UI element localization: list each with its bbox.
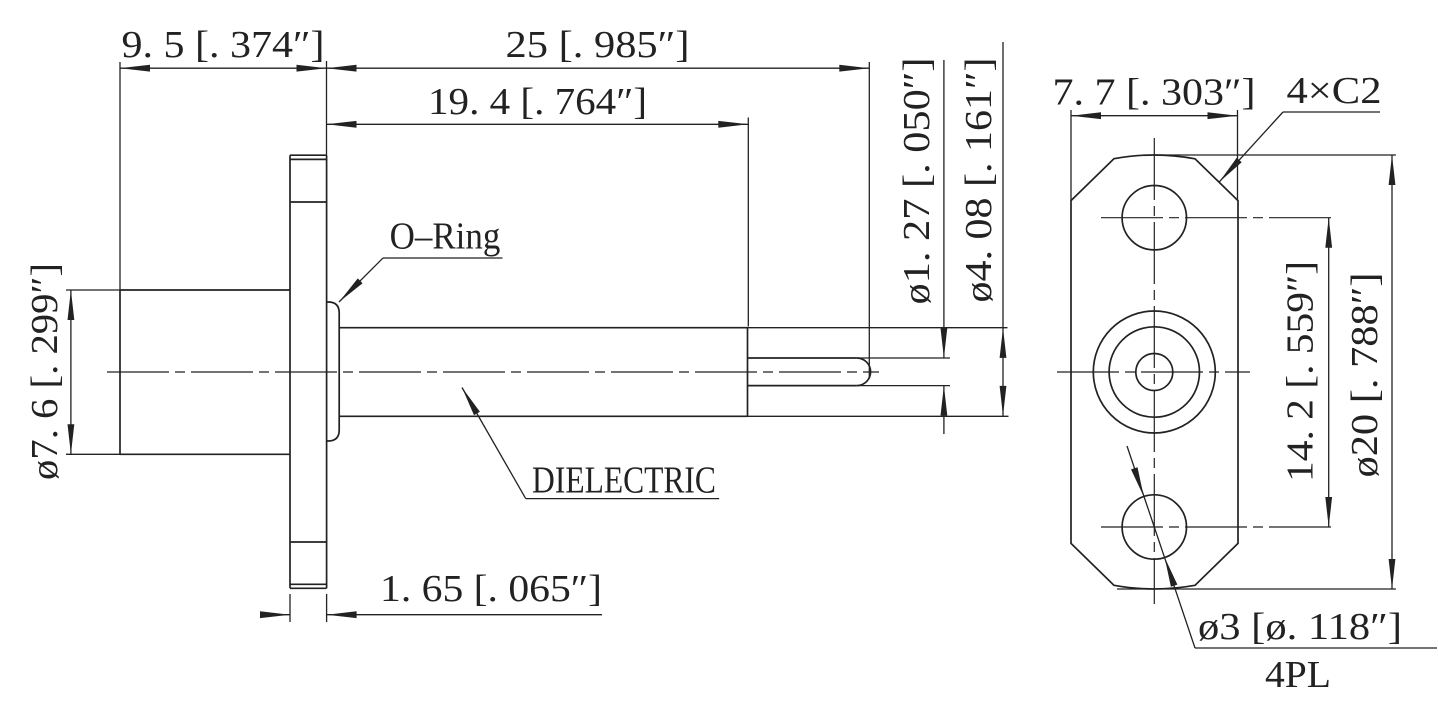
svg-text:1. 65 [. 065″]: 1. 65 [. 065″] [380, 568, 602, 610]
svg-text:14. 2 [. 559″]: 14. 2 [. 559″] [1280, 261, 1322, 482]
svg-text:ø4. 08 [. 161″]: ø4. 08 [. 161″] [958, 58, 1000, 303]
svg-text:ø20 [. 788″]: ø20 [. 788″] [1344, 273, 1386, 478]
svg-text:4×C2: 4×C2 [1287, 70, 1382, 112]
svg-text:19. 4 [. 764″]: 19. 4 [. 764″] [428, 81, 647, 123]
svg-text:DIELECTRIC: DIELECTRIC [532, 459, 716, 501]
svg-text:25 [. 985″]: 25 [. 985″] [506, 24, 690, 66]
svg-text:4PL: 4PL [1265, 654, 1331, 696]
svg-text:9. 5 [. 374″]: 9. 5 [. 374″] [122, 24, 325, 66]
svg-text:7. 7 [. 303″]: 7. 7 [. 303″] [1053, 72, 1256, 114]
svg-text:O–Ring: O–Ring [390, 214, 501, 257]
svg-text:ø3 [ø. 118″]: ø3 [ø. 118″] [1198, 606, 1402, 648]
svg-text:ø1. 27 [. 050″]: ø1. 27 [. 050″] [896, 58, 938, 305]
svg-text:ø7. 6 [. 299″]: ø7. 6 [. 299″] [24, 263, 66, 480]
